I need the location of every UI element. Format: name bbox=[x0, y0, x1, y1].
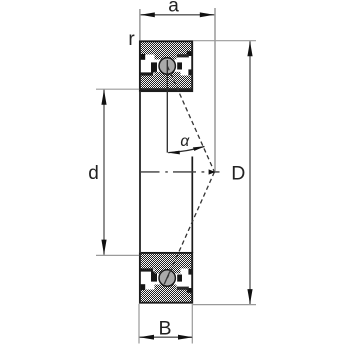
bore silhouette line (left, between sections) bbox=[139, 92, 141, 254]
svg-text:B: B bbox=[158, 317, 171, 339]
contact line (top, dashed to pressure point) bbox=[167, 66, 214, 172]
ball (bottom) bbox=[159, 270, 175, 286]
seal zone background bbox=[141, 269, 192, 290]
inner-ring shoulder bar left bbox=[140, 72, 153, 75]
bearing outline (bottom section) bbox=[140, 253, 192, 303]
seal anchor bottom-left bbox=[140, 284, 145, 290]
dimension B: line bbox=[140, 336, 193, 338]
dimension a: extension line right (down to pressure point) bbox=[214, 8, 216, 172]
right seal pocket (bottom) bbox=[177, 275, 188, 287]
outer raceway lobe below bottom ball bbox=[155, 285, 177, 292]
ball (top) bbox=[159, 58, 175, 74]
dimension D: bottom arrow bbox=[247, 289, 252, 304]
dark strip below right pocket bbox=[177, 286, 189, 289]
dark strip above right pocket bbox=[177, 54, 189, 57]
right cage bar bbox=[177, 62, 182, 69]
dimension B: right arrow bbox=[178, 335, 193, 340]
svg-text:α: α bbox=[180, 133, 190, 150]
dimension d: top arrow bbox=[101, 90, 106, 105]
svg-text:D: D bbox=[231, 163, 245, 185]
dimension D: line bbox=[249, 41, 251, 304]
left seal pocket bbox=[141, 60, 154, 72]
outer raceway lobe above ball bbox=[155, 53, 177, 60]
outer ring (top, hatched) bbox=[140, 42, 192, 55]
inner raceway lobe above bottom ball bbox=[155, 268, 181, 274]
inner-ring bore land (thick dark band) bbox=[139, 88, 193, 91]
dimension a: right arrow bbox=[200, 12, 214, 17]
left cage bar bbox=[151, 62, 157, 72]
svg-text:d: d bbox=[88, 163, 99, 184]
outer ring (bottom, hatched) bbox=[140, 290, 192, 303]
inner ring (bottom, hatched) bbox=[140, 76, 192, 91]
inner-ring shoulder bar left (bottom) bbox=[140, 268, 153, 271]
seal anchor top-right bbox=[187, 51, 193, 56]
axis centre line (dash-dot) bbox=[140, 171, 220, 173]
contact line slash across bottom ball bbox=[164, 272, 170, 285]
angle alpha arc with arrows bbox=[168, 147, 204, 153]
right seal pocket bbox=[177, 57, 188, 69]
dimension a: left arrow bbox=[140, 12, 154, 17]
svg-text:a: a bbox=[168, 0, 179, 16]
radial line through top ball centre bbox=[166, 60, 168, 153]
contact line (bottom, dashed from pressure point) bbox=[167, 172, 214, 278]
left cage bar (bottom) bbox=[151, 272, 157, 282]
pressure point node bbox=[209, 169, 216, 174]
dimension D: extension line bottom bbox=[193, 304, 256, 306]
inner ring (top, hatched) bbox=[140, 254, 192, 269]
dimension B: extension line right bbox=[191, 304, 193, 344]
dimension a: line bbox=[141, 14, 215, 16]
dimension a: extension line left bbox=[139, 9, 141, 41]
right cage bar (bottom) bbox=[177, 275, 182, 282]
dimension d: bottom arrow bbox=[101, 240, 106, 255]
dimension d: extension line top bbox=[96, 88, 139, 90]
dimension B: left arrow bbox=[139, 335, 154, 340]
dimension D: top arrow bbox=[247, 41, 252, 56]
dimension d: line bbox=[103, 90, 105, 255]
svg-text:r: r bbox=[128, 29, 135, 50]
dimension D: extension line top bbox=[193, 40, 256, 42]
inner-ring shoulder bar right bbox=[188, 69, 193, 75]
dimension d: extension line bottom bbox=[96, 254, 139, 256]
inner-ring shoulder bar right (bottom) bbox=[188, 269, 193, 275]
left seal pocket (bottom) bbox=[141, 272, 154, 284]
seal anchor bottom-right bbox=[187, 288, 193, 293]
seal anchor top-left bbox=[140, 54, 145, 60]
inner raceway lobe below ball bbox=[155, 72, 181, 77]
OD silhouette line (right, between sections) bbox=[191, 157, 193, 254]
dimension B: extension line left bbox=[138, 304, 140, 344]
seal zone background bbox=[141, 55, 192, 76]
bearing outline (top section) bbox=[140, 41, 192, 91]
